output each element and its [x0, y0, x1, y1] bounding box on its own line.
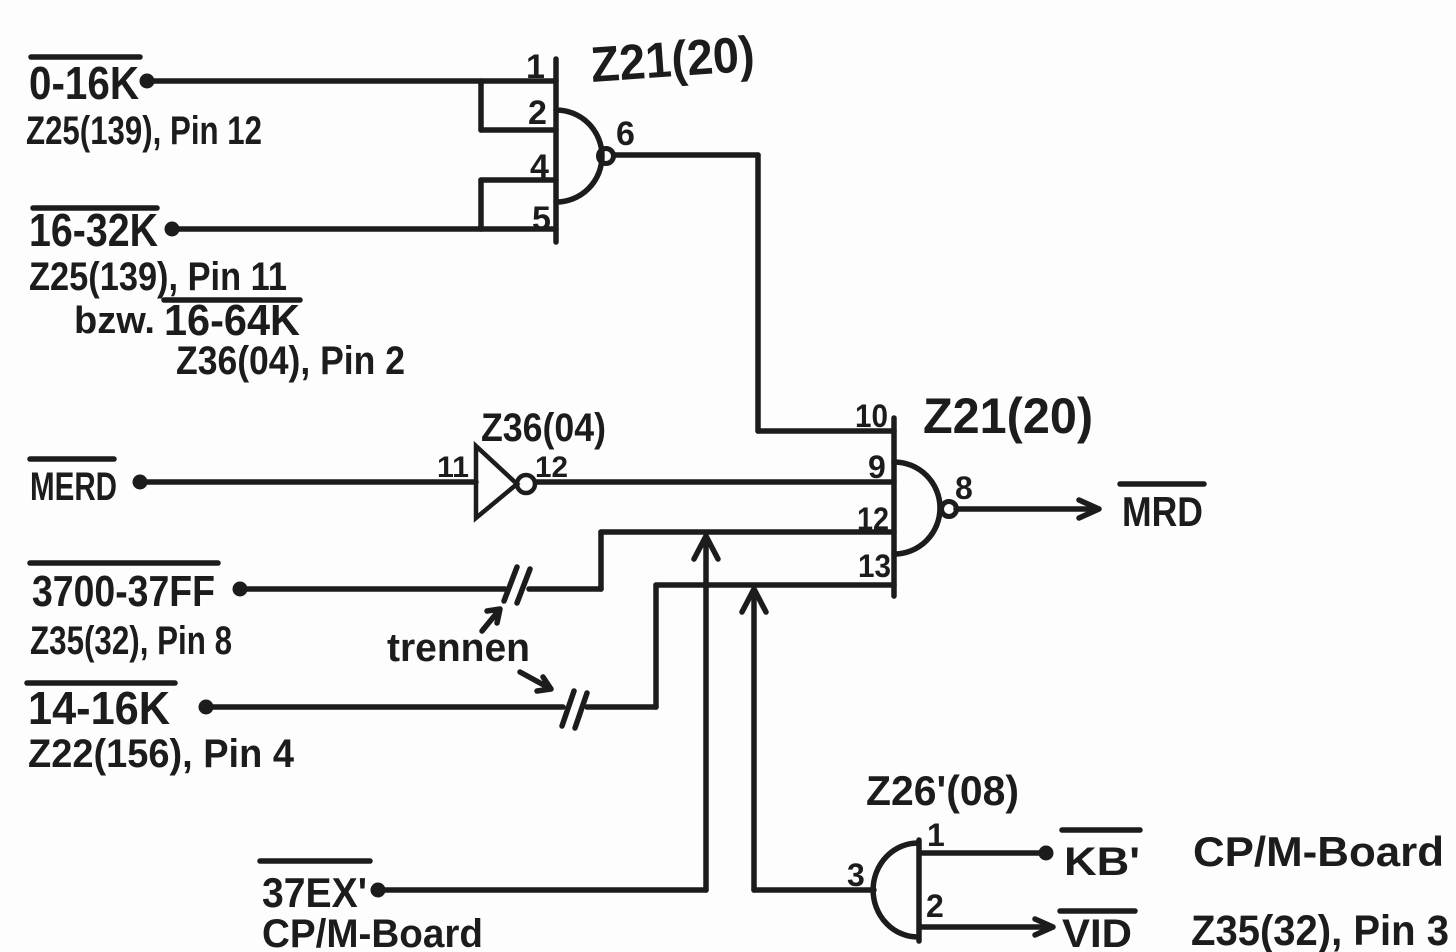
svg-text:Z21(20): Z21(20)	[923, 388, 1093, 444]
wire to U2 pin 10	[758, 428, 894, 434]
wire to U1 pin 4	[481, 177, 556, 183]
nand gate U1 output bubble	[599, 149, 614, 164]
svg-text:Z25(139), Pin 11: Z25(139), Pin 11	[29, 255, 287, 299]
svg-text:10: 10	[855, 398, 888, 434]
svg-text:16-64K: 16-64K	[164, 296, 300, 345]
wire U4 pin 2 to VID with arrow	[920, 919, 1053, 935]
nand gate U2 Z21(20) input bar	[891, 418, 897, 596]
net label 0-16K	[29, 57, 140, 109]
nand gate U1 Z21(20) input bar	[553, 59, 559, 242]
wire arrow up to pin13 net	[742, 589, 766, 890]
wire vertical up to pin13 level	[653, 585, 659, 707]
net label MERD	[30, 459, 117, 509]
wire 37EX' horizontal	[378, 887, 706, 893]
svg-text:3: 3	[847, 857, 865, 893]
svg-text:Z25(139), Pin 12: Z25(139), Pin 12	[26, 109, 262, 153]
net label MRD	[1120, 484, 1204, 535]
wire 14-16K left segment	[206, 704, 563, 710]
svg-text:CP/M-Board: CP/M-Board	[1193, 828, 1444, 875]
wire vertical down to U2 pin10 level	[755, 155, 761, 431]
svg-text:VID: VID	[1062, 912, 1132, 952]
node dot 37EX'	[371, 883, 386, 898]
arrow trennen to lower break	[520, 672, 551, 691]
wire jog pin5 to pin4 vertical	[478, 180, 484, 229]
net label VID	[1060, 911, 1135, 952]
svg-text:14-16K: 14-16K	[28, 682, 170, 734]
svg-text:12: 12	[535, 451, 568, 484]
wire 3700-37FF right segment	[529, 586, 601, 592]
svg-text:2: 2	[528, 94, 547, 132]
svg-text:1: 1	[927, 817, 945, 853]
svg-text:Z22(156), Pin 4: Z22(156), Pin 4	[28, 732, 295, 776]
wire arrow up to pin12 net	[694, 536, 718, 890]
svg-text:Z36(04): Z36(04)	[481, 406, 606, 450]
wire 3700-37FF left segment	[240, 586, 505, 592]
and gate U4 Z26'(08) body arc	[873, 843, 918, 937]
svg-text:37EX': 37EX'	[262, 869, 367, 916]
node dot KB'	[1039, 846, 1054, 861]
wire inverter output to U2 pin 9	[536, 479, 894, 485]
arrow trennen to upper break	[482, 609, 500, 631]
nand gate U2 body arc	[894, 462, 940, 554]
svg-text:1: 1	[526, 48, 545, 86]
inverter U3 Z36(04) triangle	[476, 446, 517, 518]
node dot 3700-37FF	[233, 582, 248, 597]
svg-text:CP/M-Board: CP/M-Board	[262, 912, 483, 952]
and gate U4 flat bar	[916, 840, 922, 941]
nand gate U2 output bubble	[942, 502, 957, 517]
node dot 0-16K	[140, 74, 155, 89]
svg-text:trennen: trennen	[387, 626, 530, 670]
wire U1 pin6 output horizontal	[615, 152, 758, 158]
svg-text:Z26'(08): Z26'(08)	[866, 767, 1019, 814]
svg-text:4: 4	[530, 148, 549, 186]
node dot 16-32K	[165, 222, 180, 237]
node dot MERD	[133, 475, 148, 490]
svg-text:11: 11	[437, 451, 469, 484]
svg-text:6: 6	[616, 115, 635, 153]
net label 37EX'	[260, 861, 370, 916]
svg-text:bzw.: bzw.	[74, 300, 155, 342]
wire vertical up to pin12 level	[598, 532, 604, 589]
svg-text:13: 13	[858, 548, 891, 584]
svg-text:KB': KB'	[1064, 840, 1140, 884]
svg-text:8: 8	[955, 470, 973, 506]
break mark (trennen) on 3700-37FF	[504, 567, 530, 603]
wire 14-16K right segment	[587, 704, 656, 710]
wire 0-16K to U1 pin 1	[147, 78, 556, 84]
wire U2 pin8 output with arrow to MRD	[956, 500, 1099, 518]
wire U4 pin 1 to KB'	[920, 850, 1040, 856]
wire jog pin1 to pin2 vertical	[478, 81, 484, 130]
nand gate U1 body arc	[556, 110, 602, 202]
wire to U2 pin 13	[656, 582, 894, 588]
svg-text:Z35(32), Pin 3: Z35(32), Pin 3	[1191, 907, 1449, 952]
svg-text:Z36(04), Pin 2: Z36(04), Pin 2	[176, 339, 405, 383]
wire MERD to inverter input	[140, 479, 476, 485]
wire to U4 pin 3 input	[754, 887, 874, 893]
svg-text:5: 5	[532, 200, 551, 238]
svg-text:3700-37FF: 3700-37FF	[32, 567, 215, 616]
wire to U2 pin 12	[601, 529, 894, 535]
svg-text:9: 9	[868, 449, 886, 485]
svg-text:Z35(32), Pin 8: Z35(32), Pin 8	[30, 619, 232, 663]
svg-text:Z21(20): Z21(20)	[589, 26, 757, 93]
net label 16-32K	[29, 204, 158, 256]
inverter U3 output bubble	[517, 475, 535, 493]
net label 14-16K	[27, 682, 175, 734]
net label KB'	[1062, 830, 1140, 884]
wire to U1 pin 2	[481, 127, 556, 133]
net label 16-64K	[164, 296, 300, 345]
svg-text:MRD: MRD	[1122, 488, 1203, 535]
svg-text:16-32K: 16-32K	[29, 204, 158, 256]
svg-text:MERD: MERD	[30, 465, 117, 509]
net label 3700-37FF	[30, 563, 218, 616]
break mark (trennen) on 14-16K	[562, 691, 587, 728]
svg-text:2: 2	[926, 888, 944, 924]
node dot 14-16K	[199, 700, 214, 715]
wire 16-32K to U1 pin 5	[172, 226, 556, 232]
svg-text:0-16K: 0-16K	[29, 57, 139, 109]
